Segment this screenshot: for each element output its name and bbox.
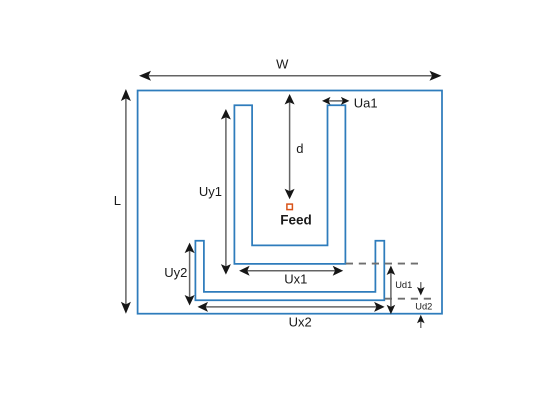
U-slot 1 (inner narrow U slot) [234,105,345,264]
svg-text:Uy1: Uy1 [199,184,222,199]
dimension arrow Ux1 (inner slot width) [239,266,343,276]
feed point marker [287,204,293,210]
dimension arrow Ua1 (inner slot arm width) [322,97,349,105]
svg-text:Ua1: Ua1 [354,96,378,111]
svg-text:Ux2: Ux2 [289,314,312,329]
svg-text:L: L [114,193,121,208]
patch outer rectangle (radiating patch) [138,91,442,314]
dimension arrow Ux2 (outer slot width) [198,302,385,312]
small down arrow to Ud2 level [417,282,425,295]
U-slot 2 (outer wide U slot) [195,241,384,301]
svg-text:Ux1: Ux1 [284,272,307,287]
svg-text:d: d [296,141,303,156]
dashed reference line at inner U-slot bottom (Ud1 level) [346,263,419,265]
dashed reference line at outer U-slot bottom (Ud2 level) [385,298,434,300]
dimension arrow d (feed depth) [285,94,295,199]
svg-text:W: W [276,56,289,71]
dimension arrow L (patch length) [121,89,131,314]
svg-text:Feed: Feed [280,213,312,228]
dimension arrow Ud1 (inner slot bottom to patch edge) [387,266,396,315]
dimension arrow Uy2 (outer slot height) [185,243,195,306]
svg-text:Ud2: Ud2 [415,302,432,312]
small up arrow to patch bottom edge [417,315,425,328]
svg-text:Uy2: Uy2 [164,265,187,280]
dimension arrow W (patch width) [139,71,442,81]
dimension arrow Uy1 (inner slot height) [221,109,231,275]
svg-text:Ud1: Ud1 [395,280,412,290]
